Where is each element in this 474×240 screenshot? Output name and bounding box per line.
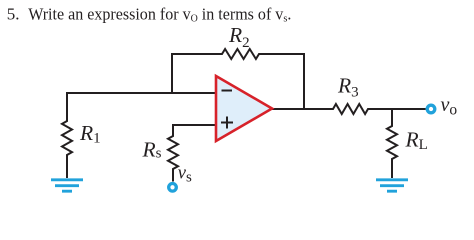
svg-text:Write an expression for vO in: Write an expression for vO in terms of v… <box>28 4 291 24</box>
svg-text:5.: 5. <box>7 5 20 24</box>
